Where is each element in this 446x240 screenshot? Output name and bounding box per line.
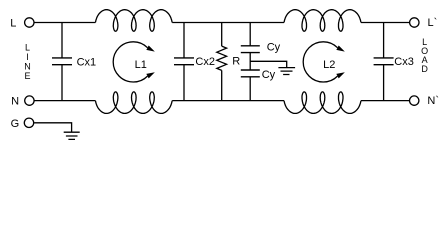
- ground symbol at G: [64, 132, 80, 139]
- wire R vertical: [221, 23, 223, 101]
- wire top rail L to L1: [34, 22, 95, 24]
- wire Cy midpoint to ground: [250, 61, 287, 67]
- wire Cx2 vertical: [183, 23, 185, 101]
- svg-text:N: N: [24, 61, 31, 71]
- svg-text:E: E: [24, 71, 30, 81]
- L2 flux arrow arc: [303, 42, 337, 82]
- wire top rail L2 to L': [361, 22, 409, 24]
- wire G terminal to ground: [34, 123, 72, 132]
- inductor L1 top winding: [95, 10, 172, 32]
- svg-text:Cx1: Cx1: [77, 57, 97, 69]
- terminal N': [410, 96, 419, 105]
- capacitor Cy lower: [241, 70, 260, 77]
- capacitor Cy upper: [241, 46, 260, 53]
- terminal N: [25, 96, 34, 105]
- wire Cy vertical: [249, 23, 251, 101]
- inductor L1 bottom winding: [95, 92, 172, 114]
- svg-text:L1: L1: [135, 59, 147, 71]
- svg-text:L: L: [10, 17, 16, 29]
- svg-text:Cx3: Cx3: [394, 56, 414, 68]
- capacitor Cx2: [174, 58, 194, 65]
- wire bottom rail L2 to N': [361, 100, 409, 102]
- svg-text:D: D: [421, 64, 428, 74]
- svg-text:Cy: Cy: [267, 42, 281, 54]
- svg-text:R: R: [232, 55, 240, 67]
- svg-text:L: L: [25, 42, 30, 52]
- svg-text:G: G: [11, 118, 20, 130]
- ground symbol at Cy: [278, 68, 295, 75]
- wire top rail L1 to L2: [172, 22, 284, 24]
- svg-text:Cy: Cy: [262, 69, 276, 81]
- wire Cx3 vertical: [383, 23, 385, 101]
- terminal L': [410, 18, 419, 27]
- capacitor Cx1: [52, 58, 72, 65]
- svg-text:L`: L`: [428, 17, 438, 29]
- svg-text:N`: N`: [427, 95, 439, 107]
- terminal L: [25, 18, 34, 27]
- svg-text:N: N: [11, 95, 19, 107]
- wire bottom rail L1 to L2: [172, 100, 284, 102]
- resistor R: [217, 46, 227, 70]
- wire bottom rail N to L1: [34, 100, 95, 102]
- wire Cx1 vertical: [61, 23, 63, 101]
- label LINE vertical: [24, 42, 31, 81]
- L2 flux arrowheads: [336, 45, 345, 78]
- terminal G: [24, 118, 33, 127]
- capacitor Cx3: [374, 58, 394, 65]
- svg-text:Cx2: Cx2: [195, 56, 215, 68]
- inductor L2 bottom winding: [284, 92, 361, 114]
- L1 flux arrow arc: [113, 42, 147, 82]
- label LOAD vertical: [421, 37, 428, 74]
- inductor L2 top winding: [284, 10, 361, 32]
- svg-text:I: I: [26, 52, 29, 62]
- svg-text:L2: L2: [323, 59, 335, 71]
- L1 flux arrowheads: [146, 45, 155, 78]
